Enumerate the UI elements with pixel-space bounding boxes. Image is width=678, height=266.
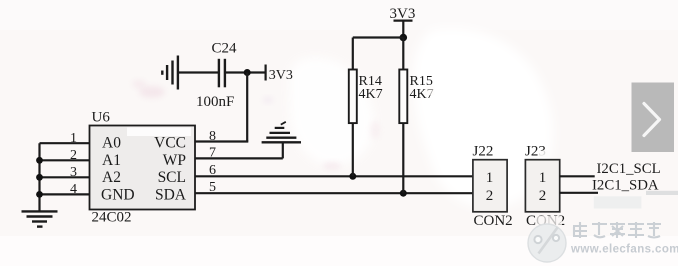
wire: address bus vertical: [38, 143, 40, 211]
node: VCC junction dot: [244, 69, 251, 76]
svg-text:1: 1: [486, 170, 494, 186]
svg-text:A2: A2: [102, 169, 121, 186]
resistor R15 4K7: [399, 38, 434, 194]
pin 7 wire (WP): [195, 142, 283, 160]
ground (WP earth symbol): [262, 122, 301, 143]
svg-text:J22: J22: [473, 144, 494, 160]
svg-text:8: 8: [209, 129, 216, 144]
junction dot R14/SCL: [349, 173, 356, 180]
pin 5 wire SDA net: [195, 180, 473, 195]
pin 2 wire (A1): [40, 148, 90, 163]
svg-text:1: 1: [539, 170, 547, 186]
ground (left of C24, rotated): [162, 56, 178, 90]
svg-text:4: 4: [70, 182, 77, 197]
svg-text:SCL: SCL: [158, 169, 186, 186]
junction dot bus/pin2: [36, 157, 43, 164]
pin 1 wire (A0): [40, 131, 90, 146]
svg-text:U6: U6: [92, 110, 111, 126]
svg-text:www.elecfans.com: www.elecfans.com: [570, 244, 678, 256]
svg-text:3V3: 3V3: [269, 68, 293, 83]
pin 4 wire (GND): [40, 182, 90, 197]
svg-text:CON2: CON2: [474, 213, 513, 229]
svg-text:2: 2: [486, 188, 494, 204]
svg-text:4K7: 4K7: [359, 87, 383, 102]
IC U6 24C02 EEPROM body: [90, 110, 196, 226]
power 3V3 (pull-up rail): [390, 6, 416, 22]
wire: VCC node down to pin 8: [246, 73, 248, 142]
svg-text:7: 7: [209, 146, 216, 161]
wire: 3V3 stem: [402, 21, 404, 38]
svg-text:1: 1: [70, 131, 77, 146]
junction dot bus/pin4: [36, 191, 43, 198]
svg-text:I2C1_SDA: I2C1_SDA: [592, 178, 659, 194]
svg-text:100nF: 100nF: [196, 94, 234, 110]
wire: C24 to VCC node: [225, 71, 266, 73]
wire: rail over to R14: [353, 36, 404, 38]
watermark elecfans logo: [528, 222, 678, 262]
pin 6 wire SCL net: [195, 163, 473, 178]
UI next-arrow button: [632, 83, 675, 153]
pin 3 wire (A2): [40, 165, 90, 180]
resistor R14 4K7: [349, 38, 383, 177]
connector J22 CON2: [473, 144, 513, 229]
junction dot bus/pin3: [36, 174, 43, 181]
node: pull-up rail junction dot: [400, 34, 408, 42]
svg-text:6: 6: [209, 163, 216, 178]
power 3V3 (VCC rail): [266, 65, 293, 84]
svg-text:A1: A1: [102, 152, 121, 169]
wire: J23 pin1 to net label: [560, 175, 595, 177]
svg-text:5: 5: [209, 180, 216, 195]
svg-text:C24: C24: [212, 41, 238, 57]
svg-text:2: 2: [70, 148, 77, 163]
wire: J23 pin2 to net label: [560, 191, 678, 209]
ground (below address bus): [22, 211, 58, 226]
svg-text:SDA: SDA: [155, 187, 187, 204]
capacitor C24 100nF: [196, 41, 237, 111]
svg-text:GND: GND: [101, 187, 135, 204]
svg-text:2: 2: [539, 188, 547, 204]
svg-text:VCC: VCC: [154, 135, 186, 152]
svg-text:24C02: 24C02: [92, 210, 132, 226]
svg-text:WP: WP: [163, 152, 186, 169]
pin 8 wire (VCC): [195, 129, 248, 144]
wire: ground to C24: [178, 71, 219, 73]
junction dot R15/SDA: [400, 190, 407, 197]
svg-text:I2C1_SCL: I2C1_SCL: [597, 161, 661, 177]
svg-text:A0: A0: [102, 135, 121, 152]
svg-text:3: 3: [70, 165, 77, 180]
connector J23 CON2: [525, 144, 565, 229]
